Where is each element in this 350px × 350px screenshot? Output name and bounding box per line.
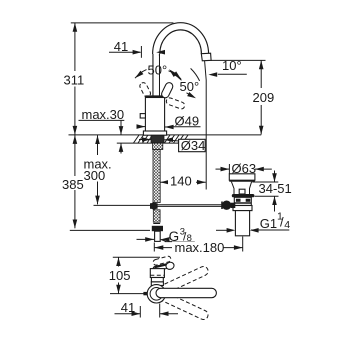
svg-text:41: 41: [114, 39, 128, 54]
svg-text:G1: G1: [260, 216, 277, 231]
svg-text:50°: 50°: [180, 79, 200, 94]
svg-text:105: 105: [109, 268, 131, 283]
svg-text:385: 385: [62, 177, 84, 192]
svg-text:max.30: max.30: [82, 107, 125, 122]
svg-text:4: 4: [284, 219, 290, 231]
svg-text:Ø63: Ø63: [232, 161, 257, 176]
svg-text:209: 209: [253, 90, 275, 105]
svg-text:Ø34: Ø34: [181, 138, 206, 153]
svg-text:300: 300: [84, 168, 106, 183]
svg-text:max.180: max.180: [175, 240, 225, 255]
svg-text:41: 41: [121, 300, 135, 315]
svg-text:140: 140: [170, 174, 192, 189]
svg-text:311: 311: [64, 72, 85, 87]
svg-text:Ø49: Ø49: [175, 114, 200, 129]
svg-text:50°: 50°: [148, 63, 168, 78]
svg-text:34-51: 34-51: [259, 181, 292, 196]
